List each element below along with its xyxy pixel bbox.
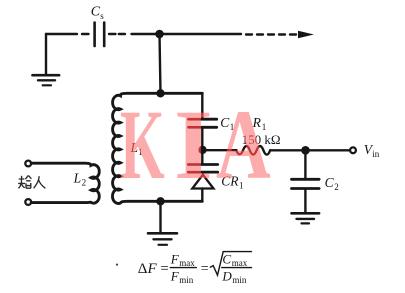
- svg-text:F: F: [170, 268, 180, 283]
- watermark KIA (red-on-ink layer): [0, 95, 405, 210]
- svg-text:ΔF =: ΔF =: [138, 261, 169, 277]
- label input (Chinese): [18, 176, 45, 189]
- wire vertical from top junction to L1 top: [160, 34, 161, 93]
- node L1 top junction: [156, 89, 164, 97]
- wire dash segment left of Cs: [82, 33, 89, 35]
- svg-text:C: C: [222, 251, 231, 266]
- fraction bar Cmax/Dmin: [222, 267, 252, 269]
- label L1: [130, 140, 143, 157]
- node mid junction (C1/CR1): [198, 146, 206, 154]
- ground G1 (top left): [33, 34, 60, 85]
- wire dashes right of Cs: [109, 33, 125, 35]
- radical sign: [210, 252, 251, 276]
- svg-text:C: C: [91, 5, 101, 20]
- svg-text:D: D: [221, 268, 232, 283]
- label C2: [325, 175, 339, 192]
- wire R1 to output node: [270, 149, 301, 151]
- svg-text:max: max: [179, 258, 195, 268]
- wire node to Vin terminal: [309, 149, 350, 151]
- wire output node to C2: [304, 150, 306, 178]
- ink speck: [116, 264, 118, 266]
- svg-text:min: min: [232, 275, 247, 285]
- wire C1 to mid node: [201, 128, 203, 148]
- wire C1 top lead: [201, 93, 203, 118]
- node output junction: [301, 146, 310, 155]
- label CR1: [221, 174, 243, 191]
- wire mid node to R1: [206, 149, 237, 151]
- inductor L2 with leads: [31, 163, 99, 203]
- terminal input top: [25, 161, 31, 167]
- resistor R1: [236, 146, 270, 155]
- label Cs: [91, 5, 105, 21]
- label R1: [252, 115, 267, 132]
- node L1 bottom junction: [156, 197, 164, 205]
- svg-text:s: s: [100, 11, 104, 21]
- capacitor C1: [189, 119, 217, 127]
- wire mid node to CR1: [201, 151, 203, 163]
- watermark KIA (pink-on-paper layer): [0, 95, 405, 210]
- capacitor Cs: [95, 23, 105, 47]
- wire top-left horizontal: [46, 33, 77, 35]
- capacitor C2: [292, 179, 320, 188]
- ground G2 (bottom center): [148, 233, 177, 245]
- wire CR1 bottom lead: [201, 189, 203, 202]
- terminal input bottom: [25, 199, 31, 205]
- fraction bar Fmax/Fmin: [170, 267, 196, 269]
- svg-text:=: =: [201, 262, 209, 277]
- node top junction: [155, 30, 164, 39]
- svg-text:min: min: [179, 275, 194, 285]
- wire L1 bottom to ground: [159, 201, 161, 232]
- svg-text:max: max: [232, 258, 248, 268]
- svg-text:F: F: [170, 251, 180, 266]
- label L2: [73, 170, 87, 187]
- label 150 kOhm: [242, 132, 281, 147]
- wire solid to junction and beyond: [132, 33, 242, 35]
- terminal Vin: [350, 147, 356, 153]
- label Vin: [364, 142, 380, 159]
- ground G3 (below C2): [292, 213, 320, 223]
- varactor CR1: [188, 165, 218, 189]
- formula delta F: [138, 251, 248, 285]
- label C1: [220, 115, 234, 132]
- wire dashed with arrow (to mixer): [246, 31, 314, 38]
- inductor L1 with top and bottom wires: [112, 93, 202, 203]
- wire C2 to ground: [304, 190, 306, 213]
